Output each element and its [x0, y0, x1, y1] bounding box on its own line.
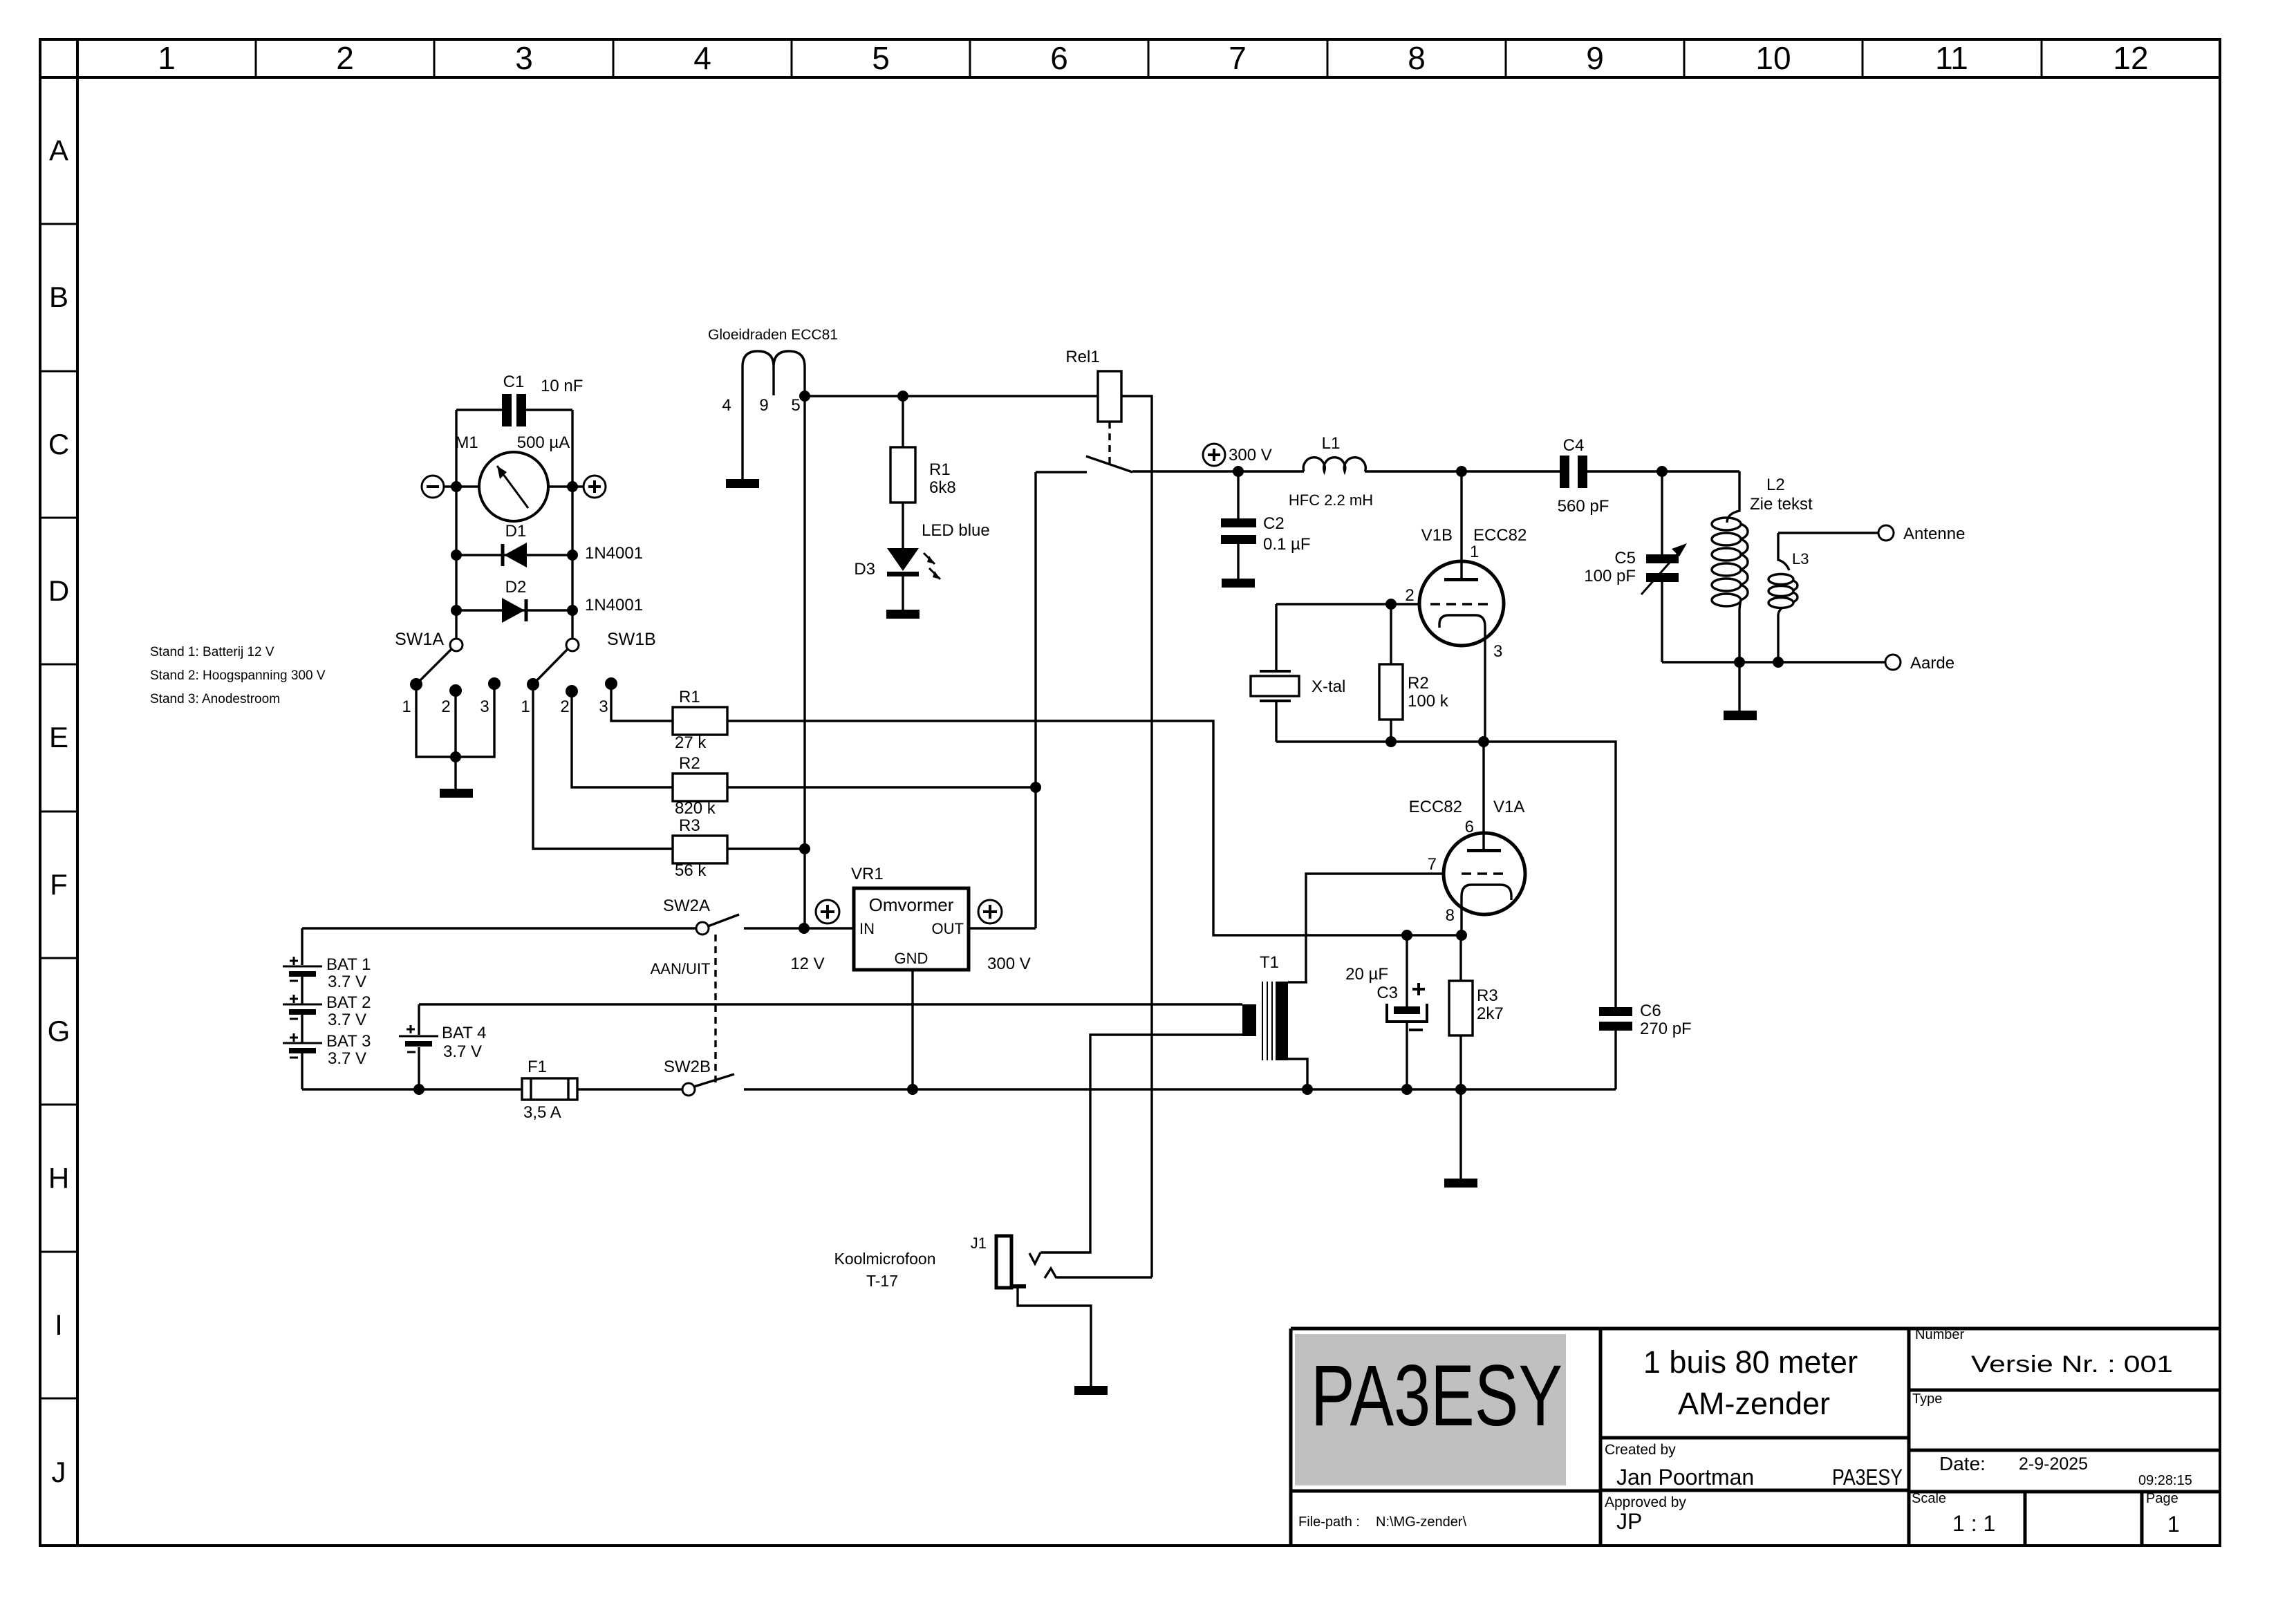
- svg-text:JP: JP: [1616, 1509, 1642, 1534]
- svg-text:2: 2: [336, 40, 354, 76]
- fuse F1: [522, 1078, 577, 1100]
- svg-text:1 buis 80 meter: 1 buis 80 meter: [1643, 1344, 1858, 1380]
- svg-text:Approved by: Approved by: [1605, 1494, 1686, 1510]
- svg-text:C3: C3: [1376, 984, 1398, 1002]
- svg-text:1: 1: [402, 697, 411, 716]
- svg-text:1N4001: 1N4001: [585, 544, 643, 563]
- svg-text:Stand 1: Batterij 12 V: Stand 1: Batterij 12 V: [150, 645, 274, 659]
- svg-text:Scale: Scale: [1912, 1491, 1946, 1506]
- svg-text:F: F: [50, 868, 68, 901]
- svg-text:H: H: [48, 1162, 69, 1194]
- node R2 feed: [1030, 782, 1041, 793]
- wire SW1A contacts to ground: [416, 684, 494, 789]
- J1 ring contact: [1045, 1268, 1152, 1278]
- svg-text:Aarde: Aarde: [1910, 654, 1954, 673]
- node meter left: [451, 481, 462, 492]
- node D2 left: [451, 605, 462, 616]
- battery BAT2: [301, 1013, 303, 1042]
- V1B grid pin 2: [1430, 603, 1493, 605]
- node heater pin5: [799, 391, 810, 402]
- svg-text:3.7 V: 3.7 V: [328, 973, 366, 991]
- svg-text:T-17: T-17: [866, 1272, 898, 1290]
- V1A grid pin 7: [1462, 872, 1509, 874]
- wire VR1 IN: [804, 927, 854, 929]
- dashed link AAN/UIT: [714, 935, 716, 1082]
- svg-text:L2: L2: [1766, 476, 1785, 494]
- crystal X-tal: [1275, 604, 1277, 742]
- node R3 bottom bus: [1455, 1084, 1466, 1095]
- svg-text:AM-zender: AM-zender: [1678, 1386, 1830, 1421]
- node V1B plate tap: [1456, 466, 1467, 477]
- node R3 12V column: [799, 843, 810, 854]
- svg-text:1: 1: [158, 40, 176, 76]
- battery BAT3: [301, 1051, 303, 1089]
- svg-text:IN: IN: [859, 920, 875, 937]
- capacitor C2: [1237, 471, 1239, 579]
- SW1A contact 1: [410, 678, 422, 691]
- svg-text:C6: C6: [1640, 1002, 1661, 1020]
- terminal Aarde: [1885, 655, 1901, 670]
- svg-text:7: 7: [1428, 855, 1437, 874]
- inductor L3: [1778, 533, 1789, 570]
- border frame header lines: [76, 39, 79, 1546]
- svg-text:500 µA: 500 µA: [517, 433, 570, 452]
- svg-text:12 V: 12 V: [790, 955, 824, 973]
- TITLEBLOCK: [1291, 1327, 2220, 1546]
- svg-text:V1B: V1B: [1421, 526, 1453, 545]
- row ticks: [40, 223, 77, 225]
- resistor R1 6k8: [902, 396, 904, 548]
- node C3 bottom bus: [1401, 1084, 1412, 1095]
- switch SW1B: [566, 639, 579, 651]
- svg-text:300 V: 300 V: [1229, 446, 1272, 465]
- svg-text:3: 3: [480, 697, 489, 716]
- svg-text:300 V: 300 V: [987, 955, 1031, 973]
- svg-text:3,5 A: 3,5 A: [523, 1103, 561, 1122]
- svg-text:8: 8: [1408, 40, 1426, 76]
- svg-text:1 : 1: 1 : 1: [1952, 1511, 1995, 1536]
- logo PA3ESY: [1295, 1334, 1566, 1485]
- node C2 tap: [1233, 466, 1244, 477]
- svg-text:X-tal: X-tal: [1312, 677, 1345, 696]
- node C5 tap: [1656, 466, 1668, 477]
- node R2 bottom: [1385, 736, 1397, 747]
- relay switch contact: [1036, 456, 1132, 472]
- diode D1: [501, 544, 505, 566]
- svg-text:56 k: 56 k: [675, 861, 707, 880]
- switch SW2B: [682, 1083, 695, 1096]
- svg-text:C5: C5: [1614, 549, 1636, 567]
- svg-text:SW1A: SW1A: [395, 630, 444, 649]
- svg-text:OUT: OUT: [932, 920, 964, 937]
- V1A plate pin 6: [1482, 742, 1484, 849]
- svg-text:8: 8: [1446, 906, 1455, 925]
- svg-text:L1: L1: [1322, 434, 1341, 453]
- svg-text:12: 12: [2113, 40, 2148, 76]
- svg-text:N:\MG-zender\: N:\MG-zender\: [1376, 1514, 1467, 1530]
- svg-text:Omvormer: Omvormer: [869, 894, 954, 915]
- wire T1 primary top to BAT4: [419, 1003, 1242, 1005]
- wire battery bus: [302, 1088, 1616, 1090]
- svg-text:820 k: 820 k: [675, 799, 716, 818]
- svg-text:Stand 3: Anodestroom: Stand 3: Anodestroom: [150, 692, 280, 706]
- svg-text:100 k: 100 k: [1408, 692, 1449, 711]
- battery BAT4: [418, 1004, 420, 1089]
- V1B cathode pin 3: [1439, 615, 1485, 742]
- svg-text:R1: R1: [929, 460, 951, 479]
- resistor R2 100k: [1390, 604, 1392, 742]
- svg-text:Date:: Date:: [1939, 1453, 1986, 1474]
- svg-text:D2: D2: [505, 578, 527, 597]
- svg-text:J: J: [52, 1456, 66, 1488]
- svg-text:0.1 µF: 0.1 µF: [1263, 535, 1311, 554]
- title block border: [1291, 1329, 2220, 1546]
- wire R1 to cathode line: [727, 721, 1462, 935]
- wire antenna: [1778, 532, 1878, 534]
- battery BAT1: [301, 928, 303, 1004]
- svg-text:3.7 V: 3.7 V: [328, 1049, 366, 1068]
- svg-text:I: I: [55, 1308, 63, 1341]
- svg-text:Jan Poortman: Jan Poortman: [1616, 1465, 1754, 1490]
- svg-text:T1: T1: [1260, 953, 1279, 972]
- inductor L1: [1303, 458, 1365, 471]
- svg-text:L3: L3: [1792, 550, 1809, 567]
- svg-text:2: 2: [560, 697, 569, 716]
- svg-text:4: 4: [693, 40, 711, 76]
- node D2 right: [567, 605, 578, 616]
- svg-text:560 pF: 560 pF: [1558, 497, 1609, 516]
- svg-text:F1: F1: [528, 1058, 547, 1076]
- relay actuation dashed link: [1108, 422, 1110, 465]
- plus terminal symbol: [584, 476, 606, 498]
- wire SW1B contact 3 to R1 row: [611, 684, 673, 721]
- svg-text:R1: R1: [679, 688, 700, 706]
- wire SW1B contact 1 to R3 row: [533, 684, 673, 849]
- svg-text:R2: R2: [679, 754, 700, 773]
- capacitor C6 270pF: [1599, 1007, 1632, 1031]
- tube V1B ECC82: [1419, 561, 1504, 646]
- svg-text:File-path :: File-path :: [1298, 1514, 1360, 1530]
- wire VR1 GND: [911, 970, 913, 1089]
- wire R3 to 12V column: [727, 847, 805, 850]
- svg-text:R3: R3: [1477, 986, 1498, 1005]
- svg-text:G: G: [48, 1015, 71, 1047]
- svg-text:PA3ESY: PA3ESY: [1311, 1348, 1562, 1444]
- svg-text:10: 10: [1755, 40, 1791, 76]
- svg-text:Page: Page: [2146, 1491, 2178, 1506]
- variable capacitor C5: [1661, 471, 1663, 662]
- svg-text:100 pF: 100 pF: [1584, 567, 1636, 585]
- node SW1A common: [450, 751, 461, 762]
- SW1B contact 3: [605, 677, 617, 690]
- supply symbol +300V: [1203, 444, 1225, 466]
- resistor R3 2k7: [1459, 935, 1462, 1089]
- svg-text:20 µF: 20 µF: [1345, 965, 1388, 984]
- svg-text:6: 6: [1465, 818, 1474, 836]
- diode D2: [525, 599, 528, 621]
- V1A cathode pin 8: [1462, 885, 1511, 935]
- wire 300V rail: [1132, 470, 1739, 472]
- ground bottom bus: [1459, 1089, 1462, 1179]
- node meter right: [567, 481, 578, 492]
- column ticks: [255, 39, 257, 77]
- capacitor C1: [502, 394, 526, 426]
- svg-text:B: B: [49, 281, 68, 313]
- wire 12V rail to relay: [805, 396, 1152, 1277]
- svg-text:Rel1: Rel1: [1065, 348, 1099, 366]
- svg-text:C4: C4: [1563, 436, 1585, 455]
- ground LED: [886, 610, 920, 619]
- node V1B grid: [1385, 599, 1397, 610]
- svg-text:11: 11: [1935, 40, 1968, 76]
- switch SW2A: [302, 927, 804, 929]
- svg-text:2: 2: [441, 697, 450, 716]
- svg-text:3: 3: [515, 40, 533, 76]
- terminal Antenne: [1878, 525, 1894, 541]
- SW1A contact 2: [449, 684, 462, 697]
- svg-text:4: 4: [722, 396, 731, 415]
- svg-text:SW2B: SW2B: [664, 1058, 711, 1076]
- svg-text:PA3ESY: PA3ESY: [1832, 1465, 1903, 1490]
- node VR1 IN: [799, 923, 810, 934]
- J1 tip contact: [1029, 1253, 1040, 1264]
- svg-text:3.7 V: 3.7 V: [443, 1042, 482, 1061]
- V1B plate pin 1: [1460, 471, 1462, 578]
- minus terminal symbol: [422, 476, 444, 498]
- svg-text:V1A: V1A: [1493, 798, 1524, 816]
- svg-text:5: 5: [791, 396, 800, 415]
- svg-text:1: 1: [521, 697, 530, 716]
- svg-text:Gloeidraden ECC81: Gloeidraden ECC81: [708, 327, 838, 343]
- node cathode R3: [1456, 930, 1467, 941]
- converter VR1 Omvormer: [854, 888, 969, 970]
- svg-text:10 nF: 10 nF: [541, 377, 583, 395]
- svg-text:Type: Type: [1912, 1391, 1942, 1407]
- svg-text:M1: M1: [455, 433, 478, 452]
- wire 300V output column: [969, 472, 1036, 928]
- svg-text:ECC82: ECC82: [1409, 798, 1462, 816]
- svg-text:1N4001: 1N4001: [585, 596, 643, 615]
- svg-text:09:28:15: 09:28:15: [2138, 1473, 2192, 1488]
- svg-text:ECC82: ECC82: [1473, 526, 1527, 545]
- svg-text:BAT 3: BAT 3: [326, 1032, 371, 1051]
- wire oscillator bus: [1276, 742, 1616, 1007]
- wire D2 row: [456, 609, 572, 611]
- svg-text:LED blue: LED blue: [922, 521, 990, 540]
- inductor L2: [1727, 471, 1739, 523]
- capacitor C3 20uF: [1406, 935, 1408, 1089]
- svg-text:9: 9: [1586, 40, 1604, 76]
- svg-text:3: 3: [599, 697, 608, 716]
- svg-text:HFC 2.2 mH: HFC 2.2 mH: [1289, 491, 1373, 509]
- svg-text:D: D: [48, 574, 69, 607]
- ground L2: [1738, 662, 1740, 711]
- svg-text:7: 7: [1229, 40, 1247, 76]
- svg-text:D3: D3: [854, 560, 875, 579]
- svg-text:1: 1: [2167, 1512, 2180, 1537]
- SW1B contact 2: [566, 685, 578, 697]
- node L2 ground: [1734, 657, 1745, 668]
- ground J1 sleeve: [1074, 1386, 1108, 1395]
- svg-text:3: 3: [1493, 642, 1502, 661]
- wire D1 row: [456, 554, 572, 556]
- node D1 left: [451, 550, 462, 561]
- svg-text:5: 5: [872, 40, 890, 76]
- wire meter row: [444, 485, 584, 487]
- SW1A contact 3: [488, 677, 501, 690]
- ground C2: [1222, 579, 1255, 588]
- meter M1: [479, 452, 548, 521]
- svg-text:D1: D1: [505, 522, 527, 541]
- node R1 6k8 tap: [897, 391, 908, 402]
- node V1B cathode bus: [1478, 736, 1489, 747]
- ground SW1A: [440, 789, 473, 798]
- svg-text:9: 9: [759, 396, 768, 415]
- svg-text:2-9-2025: 2-9-2025: [2019, 1454, 2088, 1474]
- switch SW1A: [450, 639, 463, 651]
- svg-text:Number: Number: [1915, 1327, 1964, 1342]
- svg-text:Versie Nr. : 001: Versie Nr. : 001: [1971, 1351, 2173, 1378]
- svg-text:6k8: 6k8: [929, 478, 956, 497]
- svg-text:A: A: [49, 134, 68, 167]
- svg-text:3.7 V: 3.7 V: [328, 1011, 366, 1029]
- node VR1 GND: [907, 1084, 918, 1095]
- ground heater pin4: [726, 479, 759, 488]
- svg-text:Koolmicrofoon: Koolmicrofoon: [834, 1250, 935, 1268]
- supply symbol +12V: [816, 900, 839, 923]
- svg-text:6: 6: [1050, 40, 1068, 76]
- svg-text:270 pF: 270 pF: [1640, 1020, 1692, 1038]
- svg-text:VR1: VR1: [851, 865, 884, 883]
- resistor R1 27k: [673, 707, 727, 735]
- svg-text:27 k: 27 k: [675, 733, 707, 752]
- svg-text:BAT 1: BAT 1: [326, 955, 371, 974]
- node T1 secondary bottom: [1302, 1084, 1313, 1095]
- svg-text:C1: C1: [503, 373, 525, 391]
- resistor R3 56k: [673, 836, 727, 863]
- svg-text:BAT 2: BAT 2: [326, 993, 371, 1012]
- node cathode C3: [1401, 930, 1412, 941]
- svg-text:2k7: 2k7: [1477, 1004, 1504, 1023]
- wire SW1B contact 2 to R2 row: [572, 691, 673, 787]
- tube V1A ECC82: [1444, 833, 1525, 914]
- svg-text:SW2A: SW2A: [663, 897, 710, 915]
- svg-text:Zie tekst: Zie tekst: [1750, 495, 1813, 514]
- svg-text:AAN/UIT: AAN/UIT: [651, 960, 711, 977]
- svg-text:1: 1: [1470, 543, 1479, 561]
- svg-text:J1: J1: [971, 1235, 987, 1252]
- wire M1 loop top: [456, 410, 572, 639]
- svg-text:GND: GND: [895, 950, 928, 967]
- svg-text:Stand 2: Hoogspanning 300 V: Stand 2: Hoogspanning 300 V: [150, 668, 326, 683]
- svg-text:BAT 4: BAT 4: [442, 1024, 486, 1042]
- svg-text:E: E: [49, 721, 68, 753]
- SW1B contact 1: [527, 678, 539, 691]
- wire T1 primary bottom to J1 tip: [1040, 1035, 1242, 1253]
- wire R2 to relay feed: [727, 786, 1036, 788]
- node D1 right: [567, 550, 578, 561]
- LED D3: [887, 548, 919, 571]
- svg-text:C2: C2: [1263, 514, 1285, 533]
- node L3 ground: [1773, 657, 1784, 668]
- capacitor C4: [1560, 456, 1587, 488]
- svg-text:R2: R2: [1408, 674, 1429, 693]
- supply symbol +300V out: [978, 900, 1002, 923]
- resistor R2 820k: [673, 773, 727, 801]
- svg-text:Created by: Created by: [1605, 1442, 1676, 1458]
- svg-text:C: C: [48, 428, 69, 460]
- svg-text:2: 2: [1405, 586, 1414, 605]
- svg-text:R3: R3: [679, 816, 700, 835]
- svg-text:SW1B: SW1B: [607, 630, 656, 649]
- svg-text:Antenne: Antenne: [1903, 525, 1965, 543]
- wire aarde bus: [1662, 661, 1885, 663]
- node BAT4 minus: [413, 1084, 424, 1095]
- wire 12V column down: [803, 396, 805, 928]
